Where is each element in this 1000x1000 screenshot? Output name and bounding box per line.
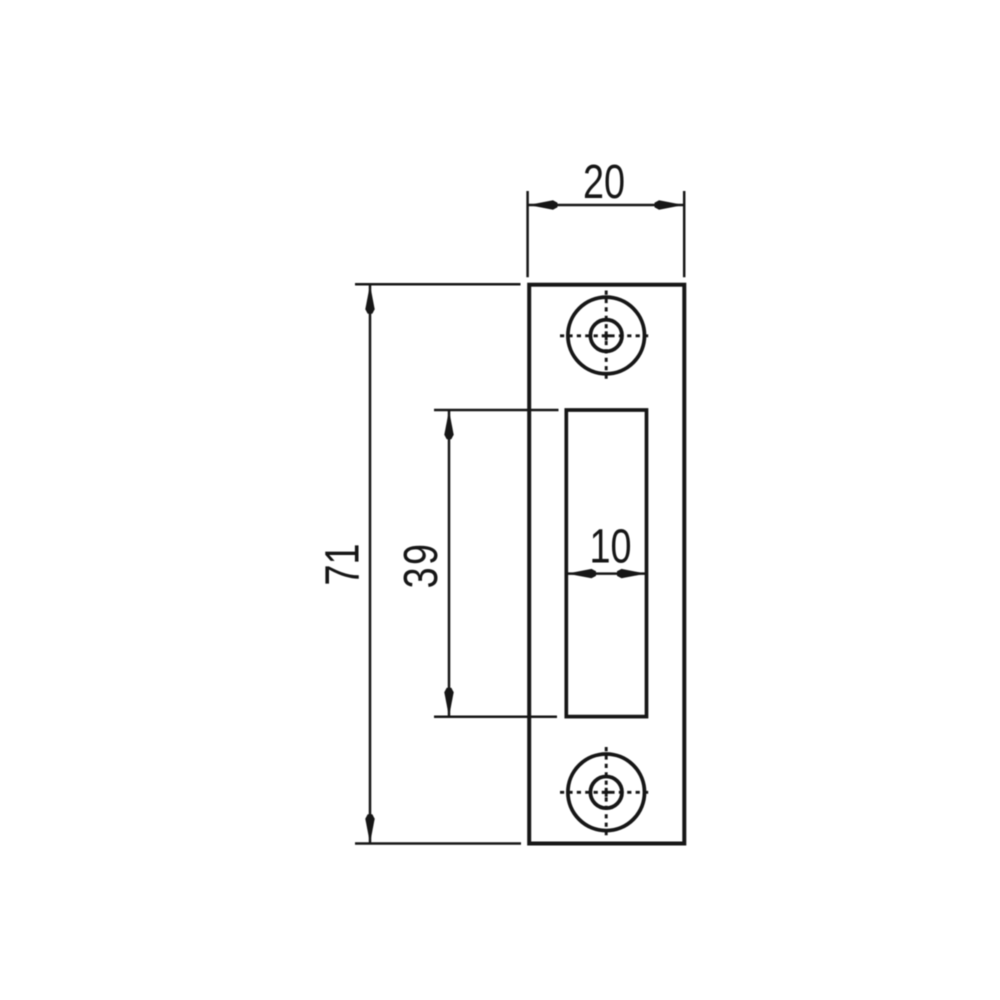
screw hole bottom centerline horizontal xyxy=(560,791,652,794)
dim 71 extension line bottom xyxy=(355,842,521,845)
dim 20 extension line left xyxy=(526,191,529,277)
svg-text:39: 39 xyxy=(395,542,449,589)
screw hole bottom inner circle xyxy=(590,777,622,809)
dim 39 arrow top xyxy=(444,410,453,439)
screw hole top inner circle xyxy=(590,320,622,352)
screw hole top centerline vertical xyxy=(605,291,608,382)
screw hole bottom centerline vertical xyxy=(605,747,608,838)
screw hole top outer circle xyxy=(568,297,645,374)
screw hole top centerline horizontal xyxy=(560,334,652,337)
dim 39 extension line bottom xyxy=(434,716,557,719)
dim 71 arrow bottom xyxy=(365,814,374,843)
strike plate outline xyxy=(529,285,684,844)
dim 10 dimension line xyxy=(567,572,646,575)
dim 71 dimension line xyxy=(369,285,372,843)
svg-text:10: 10 xyxy=(589,520,631,574)
dim 39 extension line top xyxy=(434,409,559,412)
dim 20 dimension line xyxy=(529,204,684,207)
dim 39 arrow bottom xyxy=(444,688,453,717)
latch slot rectangle xyxy=(566,410,646,717)
dim 10 arrow left xyxy=(567,569,596,578)
dim 20 extension line right xyxy=(683,191,686,277)
dim 71 arrow top xyxy=(365,285,374,314)
screw hole bottom outer circle xyxy=(568,754,645,831)
svg-text:20: 20 xyxy=(583,156,625,210)
dim 20 arrow right xyxy=(655,200,684,209)
dim 71 extension line top xyxy=(355,283,521,286)
svg-text:71: 71 xyxy=(316,543,370,585)
dim 10 arrow right xyxy=(617,569,646,578)
dim 20 arrow left xyxy=(529,200,558,209)
dim 39 dimension line xyxy=(448,411,451,717)
